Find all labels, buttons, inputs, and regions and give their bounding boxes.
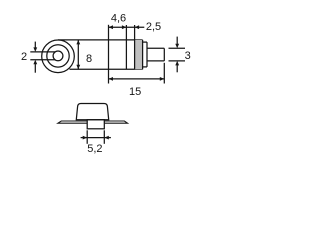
pin top line (front view) (30, 51, 55, 53)
extension line 5,2 left (86, 130, 88, 144)
collar right edge (146, 42, 148, 67)
pin bottom edge (147, 60, 164, 62)
front view middle circle (47, 45, 69, 67)
svg-text:15: 15 (129, 86, 141, 98)
svg-text:2: 2 (21, 51, 27, 63)
extension line 3 bottom (169, 60, 186, 62)
dimension 3 bottom arrow (175, 61, 179, 72)
dimension 3 top arrow (175, 37, 179, 49)
dimension 2 top arrow (33, 42, 37, 52)
dimension 8 line (76, 40, 80, 69)
pin top edge (147, 47, 164, 49)
pin right edge (163, 48, 165, 61)
pin bottom line (front view) (30, 59, 55, 61)
side view internal line L1 / extension (125, 25, 127, 69)
dimension 5,2 right outside arrow (104, 136, 111, 140)
extension line 8 top / side view top edge (58, 39, 143, 41)
extension line 5,2 right (103, 130, 105, 144)
svg-text:2,5: 2,5 (146, 21, 161, 33)
bottom view base (87, 120, 104, 129)
dimension 5,2 middle line (87, 137, 104, 139)
bottom view right lead (104, 121, 127, 123)
bottom view cap (76, 104, 108, 120)
collar bottom edge (143, 66, 147, 68)
front view outer circle (42, 40, 75, 73)
extension line 15 right (163, 63, 165, 84)
svg-text:5,2: 5,2 (87, 143, 102, 155)
side view body left edge / extension line (108, 25, 110, 84)
extension line 8 bottom / side view bottom edge (70, 68, 143, 70)
svg-text:4,6: 4,6 (111, 13, 126, 25)
bottom view left lead (58, 121, 87, 123)
collar top edge (143, 41, 147, 43)
svg-text:8: 8 (86, 53, 92, 65)
svg-text:3: 3 (185, 50, 191, 62)
gray band fill (135, 40, 143, 69)
front view inner circle (53, 51, 63, 61)
gray band left border / extension (134, 25, 136, 69)
dimension 2,5 line with outside arrow (126, 25, 144, 29)
gray band right border (142, 40, 144, 69)
extension line 3 top (169, 47, 186, 49)
dimension 2 bottom arrow (33, 60, 37, 73)
dimension 4,6 line with arrows (109, 25, 127, 29)
dimension 15 line with arrows (109, 77, 165, 81)
dimension 5,2 left outside arrow (81, 136, 88, 140)
